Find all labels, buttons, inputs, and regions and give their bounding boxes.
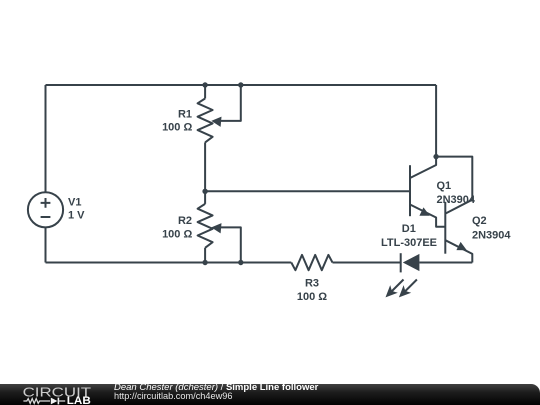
footer url line [114, 391, 232, 401]
LED arrow 2 head [399, 285, 411, 297]
voltage source V1 [28, 192, 63, 227]
diode D1 cathode bar [400, 253, 402, 272]
LED D1 light arrow 2 shaft [401, 280, 417, 296]
resistor R1 zigzag [198, 99, 213, 143]
resistor R2 bottom lead [204, 248, 206, 263]
transistor Q2 collector [445, 200, 472, 214]
svg-text:LAB: LAB [67, 395, 91, 405]
transistor Q2 base bar [444, 202, 446, 254]
transistor Q1 base bar [409, 165, 411, 216]
Q1 emitter arrowhead [419, 207, 429, 215]
resistor R1 bottom lead [204, 142, 206, 191]
junction node R1 wiper top [238, 82, 243, 87]
footer credit line [114, 382, 318, 393]
svg-text:100 Ω: 100 Ω [162, 228, 192, 240]
R1 wiper line [219, 85, 241, 121]
CircuitLab logo [0, 384, 100, 405]
wire left rail upper (top rail to V1) [45, 85, 47, 192]
resistor R3 zigzag [291, 255, 332, 270]
logo diode [51, 398, 58, 405]
junction node R2 wiper bottom [238, 260, 243, 265]
svg-text:Q2: Q2 [472, 215, 487, 227]
svg-text:R3: R3 [305, 277, 319, 289]
svg-text:Q1: Q1 [437, 180, 452, 192]
wire left rail lower (V1 to bottom rail) [45, 227, 47, 262]
svg-text:2N3904: 2N3904 [472, 229, 511, 241]
junction node R1/R2/base [202, 189, 207, 194]
svg-text:V1: V1 [68, 197, 81, 209]
LED arrow 1 head [386, 285, 398, 297]
R2 wiper arrowhead [211, 223, 221, 233]
wire base of Q1 from R1/R2 node [205, 190, 410, 192]
svg-text:R1: R1 [178, 108, 192, 120]
resistor R1 top lead [204, 85, 206, 99]
LED D1 light arrow 1 shaft [388, 280, 404, 296]
wire Q1 collector to top rail [435, 85, 437, 157]
wire bottom rail right (D1 to Q2 emitter) [419, 262, 472, 264]
junction node Q1 collector [433, 154, 438, 159]
resistor R2 top lead [204, 191, 206, 204]
diode D1 triangle [403, 254, 420, 271]
resistor R2 zigzag [198, 204, 213, 248]
transistor Q1 collector [410, 157, 436, 178]
svg-text:2N3904: 2N3904 [437, 194, 476, 206]
V1 plus sign [41, 198, 51, 208]
wire bottom rail left (V1 to R3) [46, 262, 292, 264]
wire collector node to Q2 collector [436, 157, 472, 200]
footer bar [0, 384, 540, 405]
junction node R2 bottom [202, 260, 207, 265]
wire bottom rail mid (R3 to D1) [333, 262, 401, 264]
svg-text:R2: R2 [178, 215, 192, 227]
svg-text:100 Ω: 100 Ω [297, 291, 327, 303]
Q2 emitter arrowhead [456, 242, 466, 250]
svg-text:1 V: 1 V [68, 210, 85, 222]
wire top rail from V1 to Q1 collector [46, 84, 437, 86]
svg-text:D1: D1 [402, 223, 416, 235]
svg-text:100 Ω: 100 Ω [162, 122, 192, 134]
logo resistor zigzag [23, 399, 50, 404]
junction node R1 top [202, 82, 207, 87]
R1 wiper arrowhead [211, 117, 221, 127]
transistor Q2 emitter [445, 240, 472, 262]
transistor Q1 emitter [410, 205, 445, 227]
V1 minus sign [41, 216, 51, 218]
R2 wiper line [219, 227, 241, 262]
svg-text:LTL-307EE: LTL-307EE [381, 237, 437, 249]
